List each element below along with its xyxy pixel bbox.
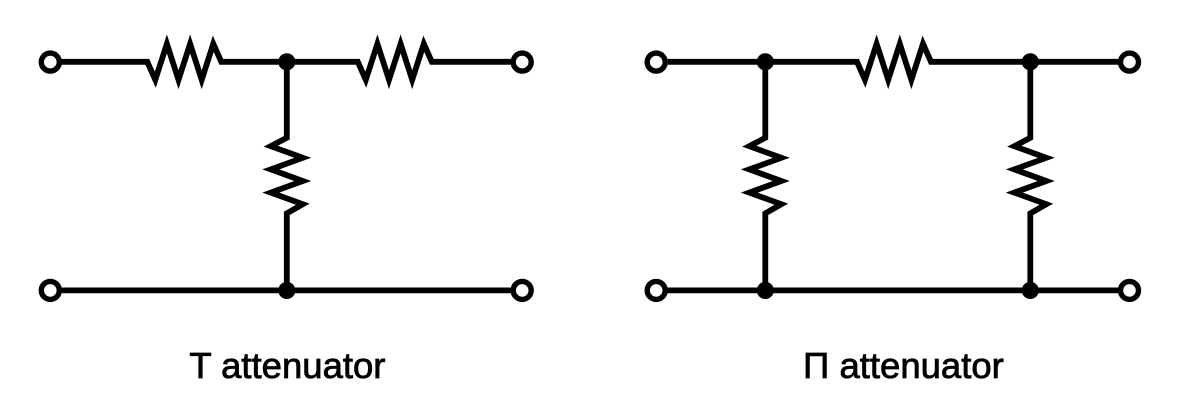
wire top rail right circuit with resistor R6 xyxy=(668,44,1118,80)
junction right circuit top right xyxy=(1022,53,1039,70)
terminal left circuit output bottom xyxy=(513,281,531,299)
junction left circuit bottom xyxy=(278,282,295,299)
junction right circuit bottom right xyxy=(1022,282,1039,299)
terminal right circuit output bottom xyxy=(1121,281,1139,299)
wire bottom rail left circuit xyxy=(62,287,511,293)
junction right circuit top left xyxy=(757,53,774,70)
wire vertical with resistor R7 (right circuit right shunt) xyxy=(1014,62,1046,291)
wire vertical with resistor R5 (right circuit left shunt) xyxy=(749,62,781,291)
terminal right circuit output top xyxy=(1121,53,1139,71)
wire top rail left circuit with resistor R1 and resistor R2 xyxy=(60,44,511,80)
svg-text:Π attenuator: Π attenuator xyxy=(803,345,1004,386)
terminal right circuit input top xyxy=(647,53,665,71)
svg-text:T attenuator: T attenuator xyxy=(189,345,385,386)
wire vertical with resistor R3 (left circuit shunt) xyxy=(271,62,303,291)
junction right circuit bottom left xyxy=(757,282,774,299)
wire bottom rail right circuit xyxy=(667,287,1118,293)
terminal left circuit input bottom xyxy=(41,281,59,299)
terminal left circuit input top xyxy=(41,53,59,71)
junction left circuit top xyxy=(278,53,295,70)
terminal left circuit output top xyxy=(513,53,531,71)
terminal right circuit input bottom xyxy=(647,281,665,299)
